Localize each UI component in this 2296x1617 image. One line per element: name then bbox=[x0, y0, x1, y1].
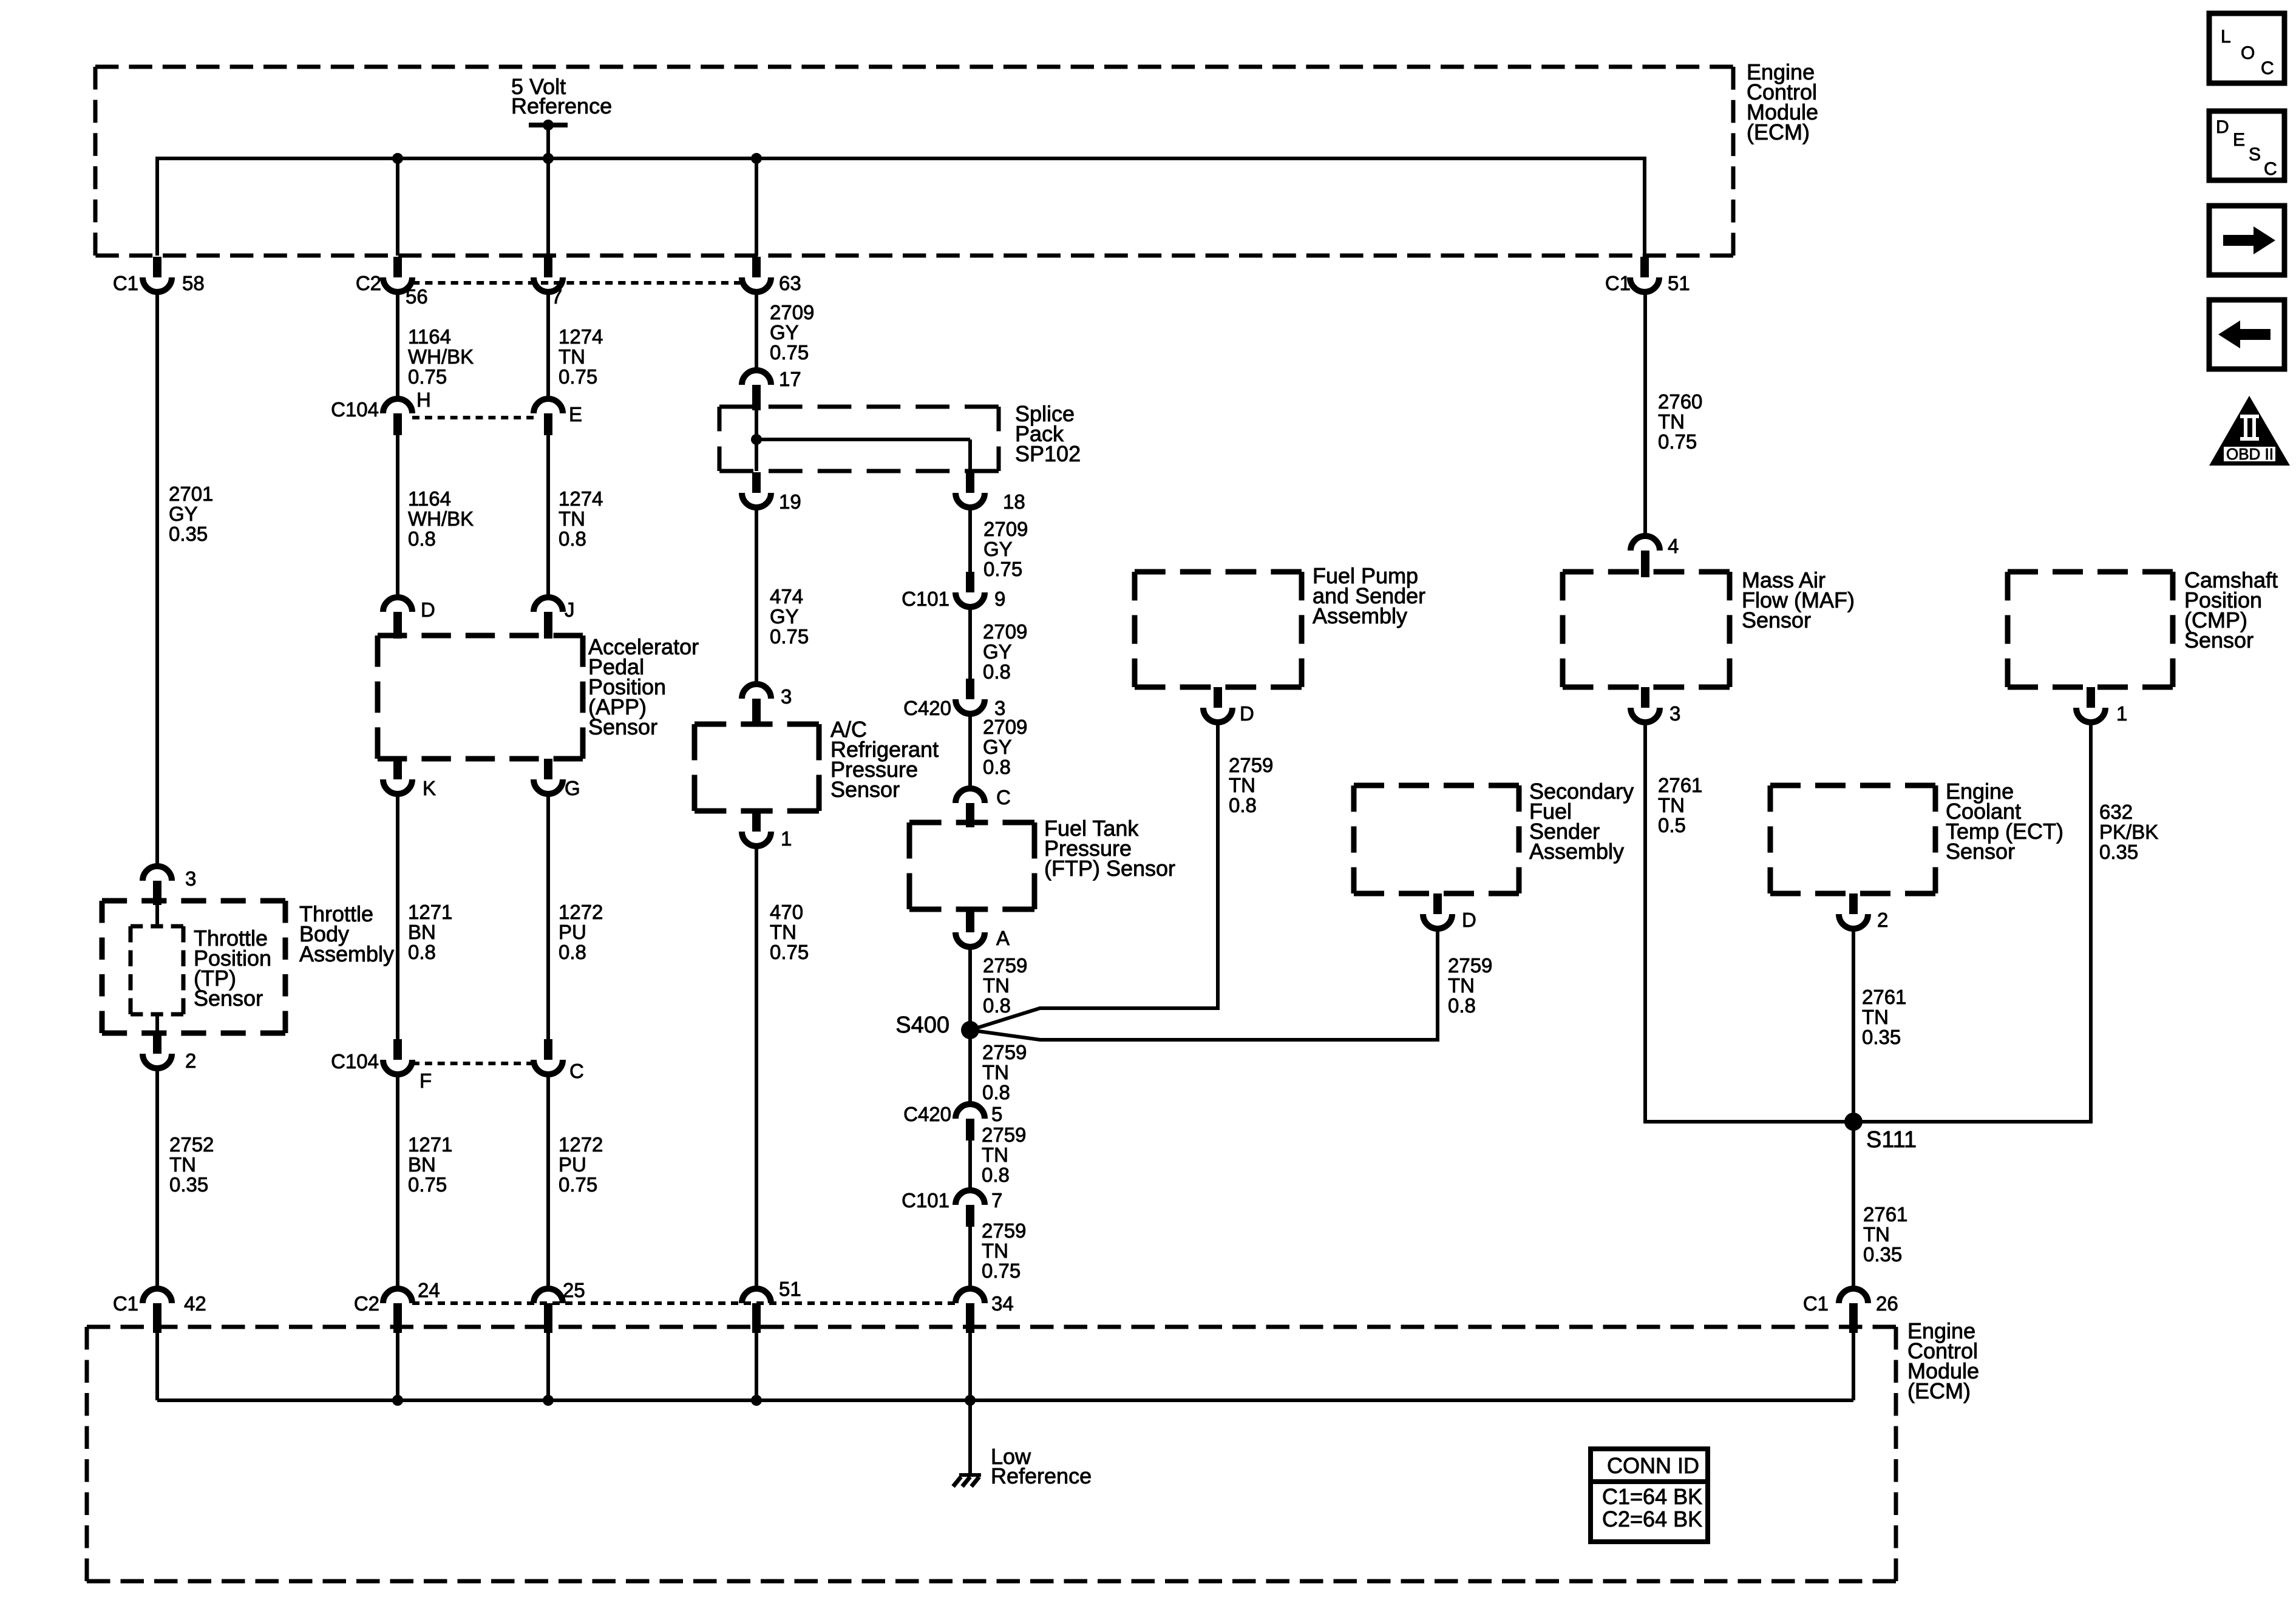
svg-text:SP102: SP102 bbox=[1015, 441, 1081, 466]
svg-text:0.75: 0.75 bbox=[983, 558, 1022, 580]
svg-text:34: 34 bbox=[991, 1292, 1014, 1315]
svg-text:TN: TN bbox=[559, 345, 585, 368]
svg-text:0.8: 0.8 bbox=[983, 994, 1011, 1017]
svg-text:24: 24 bbox=[418, 1279, 440, 1301]
svg-text:0.35: 0.35 bbox=[169, 1173, 208, 1196]
svg-text:C2=64 BK: C2=64 BK bbox=[1602, 1507, 1702, 1531]
svg-text:2759: 2759 bbox=[982, 1124, 1026, 1146]
svg-text:1271: 1271 bbox=[408, 901, 452, 923]
svg-text:2709: 2709 bbox=[983, 716, 1027, 738]
svg-text:17: 17 bbox=[779, 368, 801, 390]
svg-text:C1: C1 bbox=[1803, 1292, 1829, 1315]
svg-text:58: 58 bbox=[182, 272, 205, 294]
svg-text:TN: TN bbox=[1862, 1006, 1889, 1028]
svg-text:18: 18 bbox=[1003, 490, 1025, 513]
svg-text:C1=64 BK: C1=64 BK bbox=[1602, 1484, 1702, 1509]
svg-text:26: 26 bbox=[1876, 1292, 1898, 1315]
svg-text:Reference: Reference bbox=[991, 1463, 1092, 1488]
svg-text:C1: C1 bbox=[113, 272, 138, 294]
svg-text:0.8: 0.8 bbox=[408, 941, 436, 963]
svg-text:C: C bbox=[2264, 159, 2277, 179]
svg-text:0.75: 0.75 bbox=[982, 1259, 1021, 1282]
svg-text:0.8: 0.8 bbox=[982, 1081, 1010, 1103]
svg-text:0.5: 0.5 bbox=[1658, 814, 1686, 836]
svg-text:WH/BK: WH/BK bbox=[408, 507, 474, 530]
svg-text:L: L bbox=[2221, 27, 2231, 47]
svg-text:1274: 1274 bbox=[559, 325, 603, 348]
svg-text:Assembly: Assembly bbox=[299, 941, 394, 966]
svg-text:474: 474 bbox=[770, 585, 803, 608]
svg-text:TN: TN bbox=[982, 1061, 1009, 1083]
svg-text:2761: 2761 bbox=[1863, 1203, 1907, 1225]
svg-text:2: 2 bbox=[185, 1049, 196, 1072]
svg-text:1: 1 bbox=[2116, 702, 2127, 725]
svg-text:3: 3 bbox=[1669, 702, 1680, 725]
svg-text:0.75: 0.75 bbox=[408, 365, 447, 388]
svg-text:3: 3 bbox=[185, 867, 196, 890]
svg-text:C101: C101 bbox=[902, 1189, 949, 1212]
svg-text:2760: 2760 bbox=[1658, 390, 1702, 413]
svg-text:7: 7 bbox=[991, 1189, 1002, 1212]
svg-text:WH/BK: WH/BK bbox=[408, 345, 474, 368]
svg-text:2752: 2752 bbox=[169, 1133, 214, 1156]
svg-text:1164: 1164 bbox=[408, 487, 451, 510]
svg-text:0.35: 0.35 bbox=[1862, 1026, 1901, 1048]
svg-text:1272: 1272 bbox=[559, 1133, 603, 1156]
svg-text:Assembly: Assembly bbox=[1529, 839, 1624, 864]
svg-text:TN: TN bbox=[983, 974, 1010, 997]
svg-text:0.8: 0.8 bbox=[559, 941, 586, 963]
svg-text:0.35: 0.35 bbox=[169, 523, 208, 545]
svg-text:TN: TN bbox=[1448, 974, 1475, 997]
svg-text:C104: C104 bbox=[331, 1050, 379, 1073]
svg-text:2701: 2701 bbox=[169, 483, 213, 505]
svg-text:0.35: 0.35 bbox=[2099, 841, 2138, 863]
svg-text:GY: GY bbox=[983, 538, 1013, 560]
svg-text:A: A bbox=[996, 927, 1010, 949]
svg-text:S111: S111 bbox=[1866, 1127, 1917, 1153]
svg-text:OBD II: OBD II bbox=[2226, 445, 2274, 463]
svg-text:2759: 2759 bbox=[982, 1219, 1026, 1242]
svg-text:2759: 2759 bbox=[1229, 754, 1273, 776]
svg-text:Sensor: Sensor bbox=[588, 714, 657, 739]
svg-text:F: F bbox=[419, 1070, 432, 1092]
svg-text:0.75: 0.75 bbox=[770, 941, 809, 963]
svg-text:0.8: 0.8 bbox=[983, 660, 1011, 683]
svg-text:Sensor: Sensor bbox=[194, 986, 263, 1011]
svg-text:GY: GY bbox=[983, 640, 1012, 663]
svg-text:1271: 1271 bbox=[408, 1133, 452, 1156]
svg-text:Reference: Reference bbox=[511, 93, 612, 118]
svg-text:5: 5 bbox=[991, 1103, 1002, 1125]
svg-text:Assembly: Assembly bbox=[1313, 603, 1407, 628]
svg-text:2759: 2759 bbox=[1448, 954, 1492, 977]
svg-text:C: C bbox=[2261, 58, 2274, 78]
svg-text:TN: TN bbox=[982, 1144, 1008, 1166]
svg-text:E: E bbox=[569, 403, 582, 425]
svg-text:O: O bbox=[2241, 43, 2255, 63]
svg-text:S400: S400 bbox=[895, 1012, 949, 1038]
svg-text:2: 2 bbox=[1877, 909, 1888, 931]
svg-text:1: 1 bbox=[781, 827, 792, 850]
svg-text:1272: 1272 bbox=[559, 901, 603, 923]
svg-text:TN: TN bbox=[1229, 774, 1255, 796]
svg-text:0.8: 0.8 bbox=[1229, 794, 1257, 816]
svg-text:PU: PU bbox=[559, 1153, 586, 1176]
svg-text:25: 25 bbox=[563, 1279, 585, 1301]
svg-text:9: 9 bbox=[994, 588, 1005, 610]
svg-text:C101: C101 bbox=[902, 588, 949, 610]
svg-text:CONN ID: CONN ID bbox=[1607, 1453, 1699, 1478]
svg-text:D: D bbox=[1240, 702, 1254, 725]
svg-text:0.8: 0.8 bbox=[559, 527, 586, 550]
svg-text:632: 632 bbox=[2099, 801, 2133, 823]
svg-text:C1: C1 bbox=[1605, 272, 1631, 294]
svg-text:C: C bbox=[569, 1060, 584, 1082]
svg-text:GY: GY bbox=[169, 503, 198, 525]
svg-text:E: E bbox=[2233, 130, 2245, 150]
svg-text:0.8: 0.8 bbox=[408, 527, 436, 550]
svg-text:K: K bbox=[423, 777, 436, 799]
svg-text:3: 3 bbox=[781, 685, 792, 708]
svg-text:C420: C420 bbox=[903, 697, 951, 719]
svg-text:2709: 2709 bbox=[983, 518, 1028, 540]
svg-text:C420: C420 bbox=[903, 1103, 951, 1125]
svg-text:GY: GY bbox=[770, 321, 799, 344]
svg-text:0.75: 0.75 bbox=[1658, 430, 1697, 453]
svg-text:TN: TN bbox=[559, 507, 585, 530]
svg-text:1164: 1164 bbox=[408, 325, 451, 348]
svg-text:C104: C104 bbox=[331, 398, 379, 421]
svg-text:(ECM): (ECM) bbox=[1907, 1378, 1971, 1403]
svg-text:1274: 1274 bbox=[559, 487, 603, 510]
svg-text:4: 4 bbox=[1668, 535, 1679, 557]
svg-text:C2: C2 bbox=[356, 272, 381, 294]
svg-text:J: J bbox=[565, 598, 575, 621]
svg-text:0.75: 0.75 bbox=[770, 341, 809, 364]
svg-text:BN: BN bbox=[408, 1153, 436, 1176]
svg-text:GY: GY bbox=[770, 605, 799, 628]
svg-text:2709: 2709 bbox=[983, 620, 1027, 643]
svg-text:PK/BK: PK/BK bbox=[2099, 821, 2158, 843]
svg-text:56: 56 bbox=[406, 285, 428, 308]
svg-text:TN: TN bbox=[1658, 794, 1685, 816]
svg-text:BN: BN bbox=[408, 921, 436, 943]
svg-text:Sensor: Sensor bbox=[2184, 628, 2254, 653]
svg-text:2709: 2709 bbox=[770, 301, 814, 324]
svg-text:D: D bbox=[1462, 909, 1476, 931]
svg-text:TN: TN bbox=[1863, 1223, 1890, 1246]
svg-text:0.8: 0.8 bbox=[983, 756, 1011, 778]
svg-text:D: D bbox=[421, 598, 435, 621]
svg-text:0.8: 0.8 bbox=[982, 1164, 1010, 1186]
svg-text:19: 19 bbox=[779, 490, 801, 513]
svg-text:0.8: 0.8 bbox=[1448, 994, 1476, 1017]
svg-text:TN: TN bbox=[169, 1153, 196, 1176]
svg-text:C: C bbox=[996, 786, 1011, 808]
svg-text:Sensor: Sensor bbox=[1946, 839, 2015, 864]
svg-text:0.75: 0.75 bbox=[770, 625, 809, 648]
svg-text:51: 51 bbox=[779, 1278, 801, 1300]
svg-text:42: 42 bbox=[184, 1292, 206, 1315]
svg-text:470: 470 bbox=[770, 901, 803, 923]
svg-text:Sensor: Sensor bbox=[1742, 608, 1811, 632]
svg-text:C2: C2 bbox=[354, 1292, 379, 1315]
svg-text:0.75: 0.75 bbox=[559, 1173, 597, 1196]
svg-text:0.35: 0.35 bbox=[1863, 1243, 1902, 1266]
svg-text:PU: PU bbox=[559, 921, 586, 943]
svg-text:GY: GY bbox=[983, 736, 1012, 758]
svg-text:D: D bbox=[2216, 117, 2229, 137]
svg-text:2759: 2759 bbox=[982, 1041, 1027, 1063]
svg-text:7: 7 bbox=[551, 285, 562, 308]
svg-text:2761: 2761 bbox=[1658, 774, 1702, 796]
svg-text:S: S bbox=[2249, 144, 2261, 164]
svg-text:(FTP) Sensor: (FTP) Sensor bbox=[1044, 856, 1175, 881]
svg-text:Sensor: Sensor bbox=[830, 777, 900, 802]
svg-text:2761: 2761 bbox=[1862, 986, 1906, 1008]
svg-text:C1: C1 bbox=[113, 1292, 138, 1315]
svg-text:TN: TN bbox=[1658, 410, 1685, 433]
svg-text:2759: 2759 bbox=[983, 954, 1027, 977]
svg-text:51: 51 bbox=[1668, 272, 1690, 294]
svg-text:(ECM): (ECM) bbox=[1747, 120, 1810, 144]
svg-text:0.75: 0.75 bbox=[559, 365, 597, 388]
svg-text:H: H bbox=[416, 388, 431, 411]
svg-text:0.75: 0.75 bbox=[408, 1173, 447, 1196]
svg-text:TN: TN bbox=[982, 1239, 1008, 1262]
svg-text:TN: TN bbox=[770, 921, 796, 943]
svg-text:G: G bbox=[565, 777, 580, 799]
svg-text:63: 63 bbox=[779, 272, 801, 294]
